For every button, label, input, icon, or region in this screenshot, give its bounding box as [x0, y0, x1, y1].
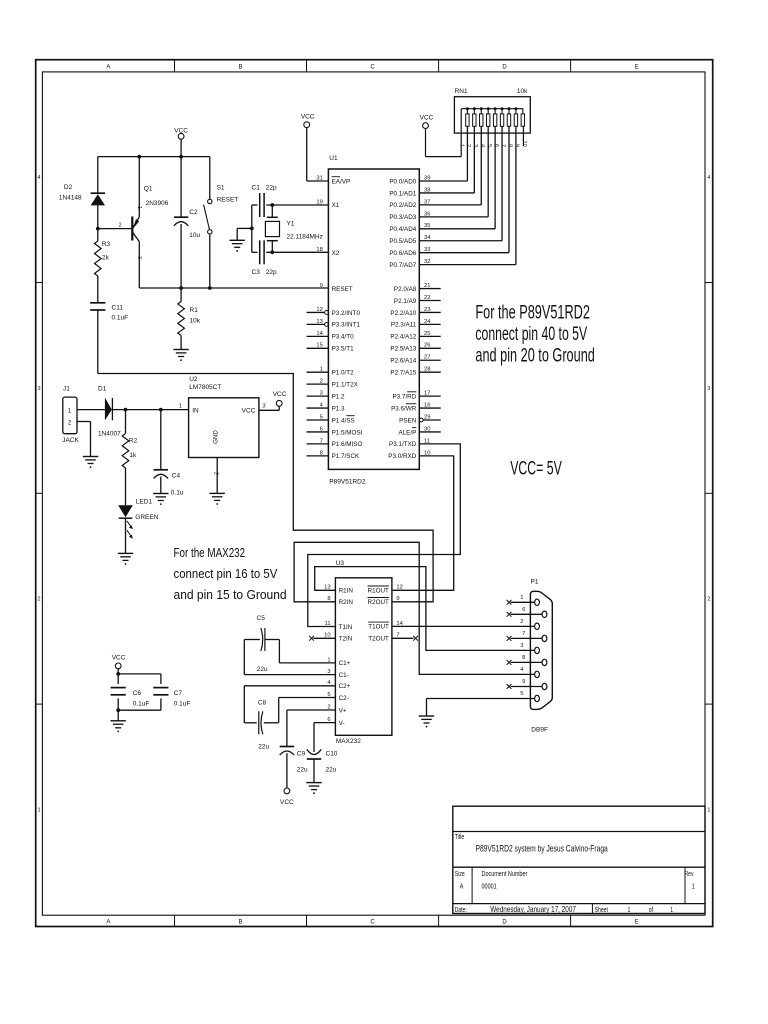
- svg-text:C10: C10: [326, 751, 338, 758]
- pin 3 P1.2: [307, 391, 346, 401]
- svg-text:P3.4/T0: P3.4/T0: [332, 334, 355, 341]
- svg-text:C1+: C1+: [339, 660, 351, 667]
- pin 4 (P1): [520, 667, 524, 673]
- capacitor C8 22u: [244, 686, 335, 751]
- pin 10 P3.0/RXD: [388, 450, 430, 460]
- svg-text:9: 9: [396, 596, 399, 602]
- svg-text:R1OUT: R1OUT: [368, 588, 389, 595]
- svg-text:IN: IN: [192, 408, 199, 415]
- pin 35 P0.4/AD4: [389, 223, 430, 233]
- svg-text:C2+: C2+: [339, 683, 351, 690]
- svg-text:4: 4: [37, 175, 40, 181]
- svg-text:JACK: JACK: [62, 437, 79, 444]
- svg-text:E: E: [635, 65, 639, 71]
- svg-text:2: 2: [213, 472, 219, 475]
- wire P0.3/AD3 to RN1 pin 5: [419, 126, 488, 217]
- svg-text:of: of: [649, 906, 654, 914]
- pin 18 X2: [316, 247, 339, 257]
- svg-text:Y1: Y1: [287, 221, 295, 228]
- svg-text:VCC: VCC: [280, 799, 294, 806]
- svg-text:U2: U2: [189, 376, 198, 383]
- svg-text:LM7805CT: LM7805CT: [189, 384, 221, 391]
- wire P0.6/AD6 to RN1 pin 8: [419, 126, 509, 252]
- svg-text:VCC: VCC: [273, 391, 287, 398]
- svg-text:P2.7/A15: P2.7/A15: [390, 370, 416, 377]
- svg-text:Rev: Rev: [685, 870, 695, 878]
- vcc symbol VCC (reset circuit): [174, 128, 188, 157]
- svg-text:1N4007: 1N4007: [98, 431, 121, 438]
- pin 21 P2.0/A8: [394, 283, 441, 293]
- svg-text:1: 1: [670, 906, 673, 914]
- svg-text:D: D: [502, 65, 507, 71]
- svg-text:P1: P1: [531, 579, 539, 586]
- pin 32 P0.7/AD7: [389, 259, 430, 269]
- svg-text:9: 9: [522, 679, 525, 685]
- svg-text:X1: X1: [332, 202, 340, 209]
- pin 36 P0.3/AD3: [389, 211, 430, 221]
- svg-text:P1.5/MOSI: P1.5/MOSI: [332, 429, 363, 436]
- svg-text:P2.6/A14: P2.6/A14: [390, 358, 416, 365]
- svg-text:P0.3/AD3: P0.3/AD3: [389, 214, 416, 221]
- vcc symbol VCC (C9): [280, 788, 294, 806]
- ground (C6/C7): [111, 710, 126, 732]
- note (P89V51RD2 power pins): [475, 302, 594, 366]
- wire (U2 output): [259, 409, 279, 411]
- svg-text:C2-: C2-: [339, 695, 349, 702]
- svg-text:J1: J1: [63, 386, 70, 393]
- wire (P3.1/TXD to T1IN): [308, 444, 461, 627]
- capacitor C6 0.1uF: [111, 674, 150, 710]
- svg-text:P3.7/RD: P3.7/RD: [392, 393, 416, 400]
- capacitor C11 0.1uF: [90, 303, 128, 374]
- svg-text:2N3906: 2N3906: [146, 200, 169, 207]
- pin 26 P2.5/A13: [390, 343, 440, 353]
- svg-text:00001: 00001: [482, 883, 497, 891]
- svg-text:22u: 22u: [258, 743, 269, 750]
- pin 2 P1.1/T2X: [307, 379, 359, 389]
- svg-text:connect pin 40 to 5V: connect pin 40 to 5V: [475, 325, 587, 345]
- svg-text:18: 18: [316, 247, 322, 253]
- svg-text:P1.2: P1.2: [332, 393, 345, 400]
- svg-text:1: 1: [136, 206, 142, 209]
- svg-text:19: 19: [316, 199, 322, 205]
- svg-text:22u: 22u: [257, 666, 268, 673]
- wire (R2IN to DB9 pin 4): [294, 542, 535, 674]
- LED LED1 GREEN: [118, 499, 159, 554]
- svg-text:0.1uF: 0.1uF: [174, 700, 191, 707]
- svg-text:VCC: VCC: [301, 114, 315, 121]
- svg-text:2k: 2k: [102, 255, 110, 262]
- regulator U2 LM7805CT: [179, 376, 266, 458]
- vcc symbol VCC (U2 output): [273, 391, 287, 410]
- svg-text:C3: C3: [252, 269, 261, 276]
- note (MAX232 power pins): [174, 547, 287, 602]
- svg-text:7: 7: [522, 631, 525, 637]
- op-amp U3 MAX232 (driver box): [335, 560, 392, 745]
- svg-text:22p: 22p: [266, 269, 277, 276]
- svg-text:P0.0/AD0: P0.0/AD0: [389, 178, 416, 185]
- wire P0.0/AD0 to RN1 pin 2: [419, 126, 467, 181]
- pin 27 P2.6/A14: [390, 355, 440, 365]
- svg-text:D2: D2: [64, 184, 73, 191]
- svg-text:P3.5/T1: P3.5/T1: [332, 346, 355, 353]
- resistor network RN1 10k: [426, 88, 531, 157]
- svg-text:T1IN: T1IN: [339, 624, 353, 631]
- ground (LED1): [118, 553, 133, 564]
- svg-text:PSEN: PSEN: [399, 417, 417, 424]
- svg-text:1: 1: [707, 807, 710, 813]
- junction (S1 / reset net): [208, 286, 212, 290]
- svg-text:B: B: [238, 65, 242, 71]
- pin 7 T2OUT (U3): [368, 633, 418, 643]
- resistor R3 2k: [95, 229, 111, 302]
- svg-text:Q1: Q1: [144, 186, 153, 193]
- svg-text:R2: R2: [129, 438, 138, 445]
- svg-text:and pin 20 to Ground: and pin 20 to Ground: [475, 345, 594, 366]
- svg-text:P3.6/WR: P3.6/WR: [391, 405, 417, 412]
- svg-text:1k: 1k: [129, 452, 137, 459]
- svg-text:C1: C1: [252, 184, 261, 191]
- pin 34 P0.5/AD5: [389, 235, 431, 245]
- pin 7 P1.6/MISO: [307, 438, 363, 448]
- svg-text:22p: 22p: [266, 184, 277, 191]
- note (VCC value): [510, 458, 562, 480]
- junction (C6 bottom): [116, 708, 120, 712]
- capacitor C5 22u: [244, 615, 335, 675]
- svg-text:A: A: [106, 65, 110, 71]
- wire (rectified input): [112, 409, 188, 411]
- pin 15 P3.5/T1: [307, 343, 355, 353]
- pin 1 C1+ (U3): [327, 657, 350, 667]
- pin 6 P1.5/MOSI: [307, 426, 363, 436]
- ground (U2): [210, 493, 225, 505]
- crystal Y1 22.1184MHz: [265, 205, 322, 252]
- svg-text:C1-: C1-: [339, 672, 349, 679]
- svg-text:2: 2: [37, 597, 40, 603]
- svg-text:RESET: RESET: [217, 197, 239, 204]
- svg-text:VCC: VCC: [242, 408, 256, 415]
- capacitor C7 0.1uF: [118, 674, 190, 710]
- svg-text:8: 8: [507, 144, 513, 147]
- svg-text:6: 6: [522, 607, 525, 613]
- pin 33 P0.6/AD6: [389, 247, 430, 257]
- pin 14 P3.4/T0: [307, 331, 355, 341]
- power rail VCC wire: [98, 156, 210, 158]
- svg-text:V+: V+: [339, 707, 347, 714]
- wire (Q1 base): [98, 228, 133, 230]
- pin 16 P3.6/WR: [391, 402, 441, 412]
- svg-text:P3.1/TXD: P3.1/TXD: [389, 441, 417, 448]
- svg-text:0.1u: 0.1u: [171, 490, 184, 497]
- svg-text:9: 9: [320, 283, 323, 289]
- svg-text:P0.5/AD5: P0.5/AD5: [389, 238, 416, 245]
- svg-text:R3: R3: [102, 241, 111, 248]
- svg-text:0.1uF: 0.1uF: [112, 315, 129, 322]
- pin 13 R1IN (U3): [324, 585, 353, 595]
- svg-text:RN1: RN1: [455, 88, 468, 95]
- svg-text:12: 12: [396, 585, 402, 591]
- pin 30 ALE/P: [398, 426, 440, 436]
- capacitor C9 22u: [280, 710, 336, 788]
- svg-text:C9: C9: [297, 751, 306, 758]
- capacitor C4 0.1u: [154, 410, 184, 497]
- wire (DB9 pin 5 to ground): [427, 699, 535, 717]
- svg-text:B: B: [238, 919, 242, 925]
- svg-text:P0.1/AD1: P0.1/AD1: [389, 190, 416, 197]
- svg-text:2: 2: [707, 597, 710, 603]
- svg-text:4: 4: [479, 144, 485, 147]
- svg-text:MAX232: MAX232: [336, 738, 361, 745]
- pin 8 P1.7/SCK: [307, 450, 361, 460]
- wire P0.1/AD1 to RN1 pin 3: [419, 126, 474, 193]
- svg-text:Document Number: Document Number: [482, 870, 528, 878]
- svg-text:D1: D1: [98, 386, 107, 393]
- svg-text:2: 2: [465, 144, 471, 147]
- svg-text:C4: C4: [172, 473, 181, 480]
- pin 29 PSEN: [399, 414, 441, 424]
- svg-text:R2OUT: R2OUT: [368, 599, 389, 606]
- pin 5 P1.4/SS: [307, 414, 355, 424]
- svg-text:R1IN: R1IN: [339, 588, 354, 595]
- svg-text:P2.5/A13: P2.5/A13: [390, 346, 416, 353]
- svg-text:P3.2/INT0: P3.2/INT0: [332, 310, 361, 317]
- connector J1 JACK: [62, 386, 105, 445]
- svg-text:T2IN: T2IN: [339, 636, 353, 643]
- pin 37 P0.2/AD2: [389, 199, 430, 209]
- svg-text:Date:: Date:: [455, 906, 467, 914]
- pin 23 P2.2/A10: [390, 307, 440, 317]
- pin 2 (P1): [520, 619, 523, 625]
- ground (crystal): [230, 228, 245, 251]
- junction (C4 tap): [159, 408, 163, 412]
- pin 1 P1.0/T2: [307, 367, 355, 377]
- svg-text:For the MAX232: For the MAX232: [174, 547, 246, 561]
- svg-text:2: 2: [520, 619, 523, 625]
- svg-text:GREEN: GREEN: [135, 514, 158, 521]
- pin 19 X1: [316, 199, 339, 209]
- svg-text:10u: 10u: [189, 232, 200, 239]
- pin 28 P2.7/A15: [390, 367, 440, 377]
- wire (crystal ground branch): [237, 227, 252, 229]
- ground (C10): [306, 783, 321, 795]
- switch S1 RESET: [204, 157, 239, 288]
- pin 24 P2.3/A11: [391, 319, 441, 329]
- svg-text:22u: 22u: [297, 767, 308, 774]
- svg-text:Wednesday, January 17, 2007: Wednesday, January 17, 2007: [490, 904, 576, 914]
- svg-text:connect pin 16 to 5V: connect pin 16 to 5V: [174, 566, 279, 581]
- junction (X1 node): [270, 203, 274, 207]
- pin 5 (P1): [520, 691, 523, 697]
- svg-text:VCC= 5V: VCC= 5V: [510, 458, 562, 480]
- junction (R1 / reset net): [179, 286, 183, 290]
- capacitor C1 22p: [252, 184, 329, 217]
- pin 6 V- (U3): [327, 717, 344, 727]
- pin 31 EA/VP: [316, 175, 350, 185]
- svg-text:VCC: VCC: [420, 115, 434, 122]
- pin 10 T2IN (U3): [309, 633, 352, 643]
- pin 8 R2IN (U3): [327, 596, 353, 606]
- pin 1 (P1, n.c.): [507, 595, 535, 605]
- resistor R2 1k: [122, 410, 137, 506]
- svg-text:10k: 10k: [190, 317, 201, 324]
- svg-text:8: 8: [327, 596, 330, 602]
- pin 17 P3.7/RD: [392, 391, 440, 401]
- wire (C11 to R2OUT): [98, 374, 433, 602]
- svg-text:VCC: VCC: [112, 655, 126, 662]
- svg-text:P1.7/SCK: P1.7/SCK: [332, 453, 360, 460]
- svg-text:E: E: [635, 919, 639, 925]
- pin 11 P3.1/TXD: [389, 438, 430, 448]
- svg-text:P3.3/INT1: P3.3/INT1: [332, 322, 361, 329]
- svg-text:6: 6: [493, 144, 499, 147]
- pin 9 R2OUT (U3): [368, 596, 400, 606]
- svg-text:1: 1: [520, 595, 523, 601]
- junction (C6 top): [116, 672, 120, 676]
- svg-text:4: 4: [707, 175, 710, 181]
- connector P1 DB9F: [530, 579, 552, 734]
- ground (R1): [173, 350, 188, 362]
- svg-text:Title: Title: [455, 833, 465, 841]
- svg-text:1: 1: [179, 404, 182, 410]
- svg-text:U3: U3: [336, 560, 345, 567]
- svg-text:2: 2: [119, 223, 122, 229]
- svg-text:V-: V-: [339, 720, 345, 727]
- resistor R1 10k: [178, 288, 201, 350]
- svg-text:14: 14: [396, 621, 403, 627]
- capacitor C2 10u: [174, 157, 201, 288]
- svg-text:R2IN: R2IN: [339, 599, 354, 606]
- pin 8 (P1, n.c.): [507, 655, 543, 665]
- svg-text:P0.7/AD7: P0.7/AD7: [389, 262, 416, 269]
- pin 9 (P1, n.c.): [507, 679, 543, 689]
- junction (R2 tap): [124, 408, 128, 412]
- title block: [453, 806, 705, 914]
- pin 14 T1OUT (U3): [368, 621, 403, 631]
- svg-text:C11: C11: [112, 305, 124, 312]
- svg-text:P1.6/MISO: P1.6/MISO: [332, 441, 363, 448]
- svg-text:10: 10: [521, 141, 527, 147]
- svg-text:R1: R1: [190, 307, 199, 314]
- wire (J1 pin 2 to ground): [77, 422, 91, 457]
- svg-text:5: 5: [486, 144, 492, 147]
- svg-text:C8: C8: [258, 700, 267, 707]
- wire P0.2/AD2 to RN1 pin 4: [419, 126, 481, 205]
- svg-text:T2OUT: T2OUT: [368, 636, 389, 643]
- pin 2 V+ (U3): [327, 704, 346, 714]
- junction (C2 / rail): [179, 155, 183, 159]
- svg-text:1: 1: [459, 144, 465, 147]
- svg-text:22u: 22u: [326, 767, 337, 774]
- junction (ground branch): [250, 227, 254, 231]
- svg-text:C7: C7: [174, 690, 183, 697]
- svg-text:P2.2/A10: P2.2/A10: [390, 310, 416, 317]
- svg-text:22.1184MHz: 22.1184MHz: [287, 234, 323, 241]
- svg-text:C: C: [370, 919, 375, 925]
- svg-text:T1OUT: T1OUT: [368, 624, 389, 631]
- svg-text:11: 11: [325, 621, 331, 627]
- svg-text:P1.0/T2: P1.0/T2: [332, 370, 355, 377]
- svg-text:DB9F: DB9F: [531, 727, 548, 734]
- pin 2 GND (U2): [213, 458, 219, 494]
- svg-text:EA/VP: EA/VP: [332, 178, 351, 185]
- svg-text:A: A: [460, 883, 464, 891]
- svg-text:D: D: [502, 919, 507, 925]
- svg-text:8: 8: [522, 655, 525, 661]
- pin 4 P1.3: [307, 402, 346, 412]
- svg-text:P0.2/AD2: P0.2/AD2: [389, 202, 416, 209]
- svg-text:C6: C6: [133, 690, 142, 697]
- pin 3 (P1): [520, 643, 523, 649]
- svg-text:GND: GND: [212, 430, 219, 444]
- vcc symbol VCC (EA/VP): [301, 114, 329, 181]
- pin 11 T1IN (U3): [325, 621, 353, 631]
- wire (P3.0/RXD to R1OUT): [392, 456, 454, 590]
- junction (X2 node): [270, 250, 274, 254]
- svg-text:Size: Size: [455, 870, 465, 878]
- pin 12 P3.2/INT0: [307, 307, 361, 317]
- svg-text:P89V51RD2: P89V51RD2: [329, 478, 366, 485]
- svg-text:U1: U1: [329, 155, 338, 162]
- pin 9 RESET: [320, 283, 353, 293]
- svg-text:3: 3: [707, 386, 710, 392]
- ground (DB9 shield): [419, 716, 434, 727]
- svg-text:P0.4/AD4: P0.4/AD4: [389, 226, 416, 233]
- svg-text:VCC: VCC: [174, 128, 188, 135]
- vcc symbol VCC (decoupling): [112, 655, 126, 674]
- svg-text:3: 3: [520, 643, 523, 649]
- junction (Q1 emitter / rail): [137, 155, 141, 159]
- svg-text:S1: S1: [217, 185, 225, 192]
- wire P0.4/AD4 to RN1 pin 6: [419, 126, 495, 229]
- svg-text:P0.6/AD6: P0.6/AD6: [389, 250, 416, 257]
- wire (C1/C3 common): [251, 205, 253, 252]
- pin 5 C2- (U3): [327, 692, 348, 702]
- svg-text:ALE/P: ALE/P: [398, 429, 416, 436]
- op-amp U1 P89V51RD2 (MCU box): [328, 155, 419, 485]
- svg-text:C2: C2: [189, 209, 198, 216]
- pin 13 P3.3/INT1: [307, 319, 361, 329]
- svg-text:For the P89V51RD2: For the P89V51RD2: [475, 302, 590, 323]
- capacitor C3 22p: [252, 240, 329, 276]
- svg-text:0.1uF: 0.1uF: [133, 700, 150, 707]
- svg-text:X2: X2: [332, 250, 340, 257]
- svg-text:1: 1: [628, 906, 631, 914]
- svg-text:Sheet: Sheet: [595, 906, 609, 914]
- vcc symbol VCC (RN1): [420, 115, 434, 157]
- svg-text:5: 5: [520, 691, 523, 697]
- svg-text:P1.3: P1.3: [332, 405, 345, 412]
- svg-text:C5: C5: [257, 615, 266, 622]
- svg-text:P1.1/T2X: P1.1/T2X: [332, 381, 359, 388]
- wire (T1OUT to DB9 pin 2): [392, 625, 535, 627]
- svg-text:P2.4/A12: P2.4/A12: [390, 334, 416, 341]
- svg-text:P3.0/RXD: P3.0/RXD: [388, 453, 416, 460]
- wire (R1IN to DB9 pin 3): [315, 567, 535, 651]
- svg-text:1N4148: 1N4148: [59, 194, 82, 201]
- pin 12 R1OUT (U3): [368, 585, 403, 595]
- svg-text:3: 3: [136, 256, 142, 259]
- svg-text:3: 3: [472, 144, 478, 147]
- junction (D2 / R3 / base): [96, 227, 100, 231]
- pin 7 (P1, n.c.): [507, 631, 543, 641]
- svg-text:C: C: [370, 65, 375, 71]
- pin 6 (P1, n.c.): [507, 607, 543, 617]
- svg-text:3: 3: [37, 386, 40, 392]
- svg-text:P2.1/A9: P2.1/A9: [394, 298, 417, 305]
- svg-text:P89V51RD2 system by Jesus Calv: P89V51RD2 system by Jesus Calvino-Fraga: [476, 844, 609, 854]
- wire P0.5/AD5 to RN1 pin 7: [419, 126, 502, 240]
- diode D2 1N4148: [59, 157, 105, 229]
